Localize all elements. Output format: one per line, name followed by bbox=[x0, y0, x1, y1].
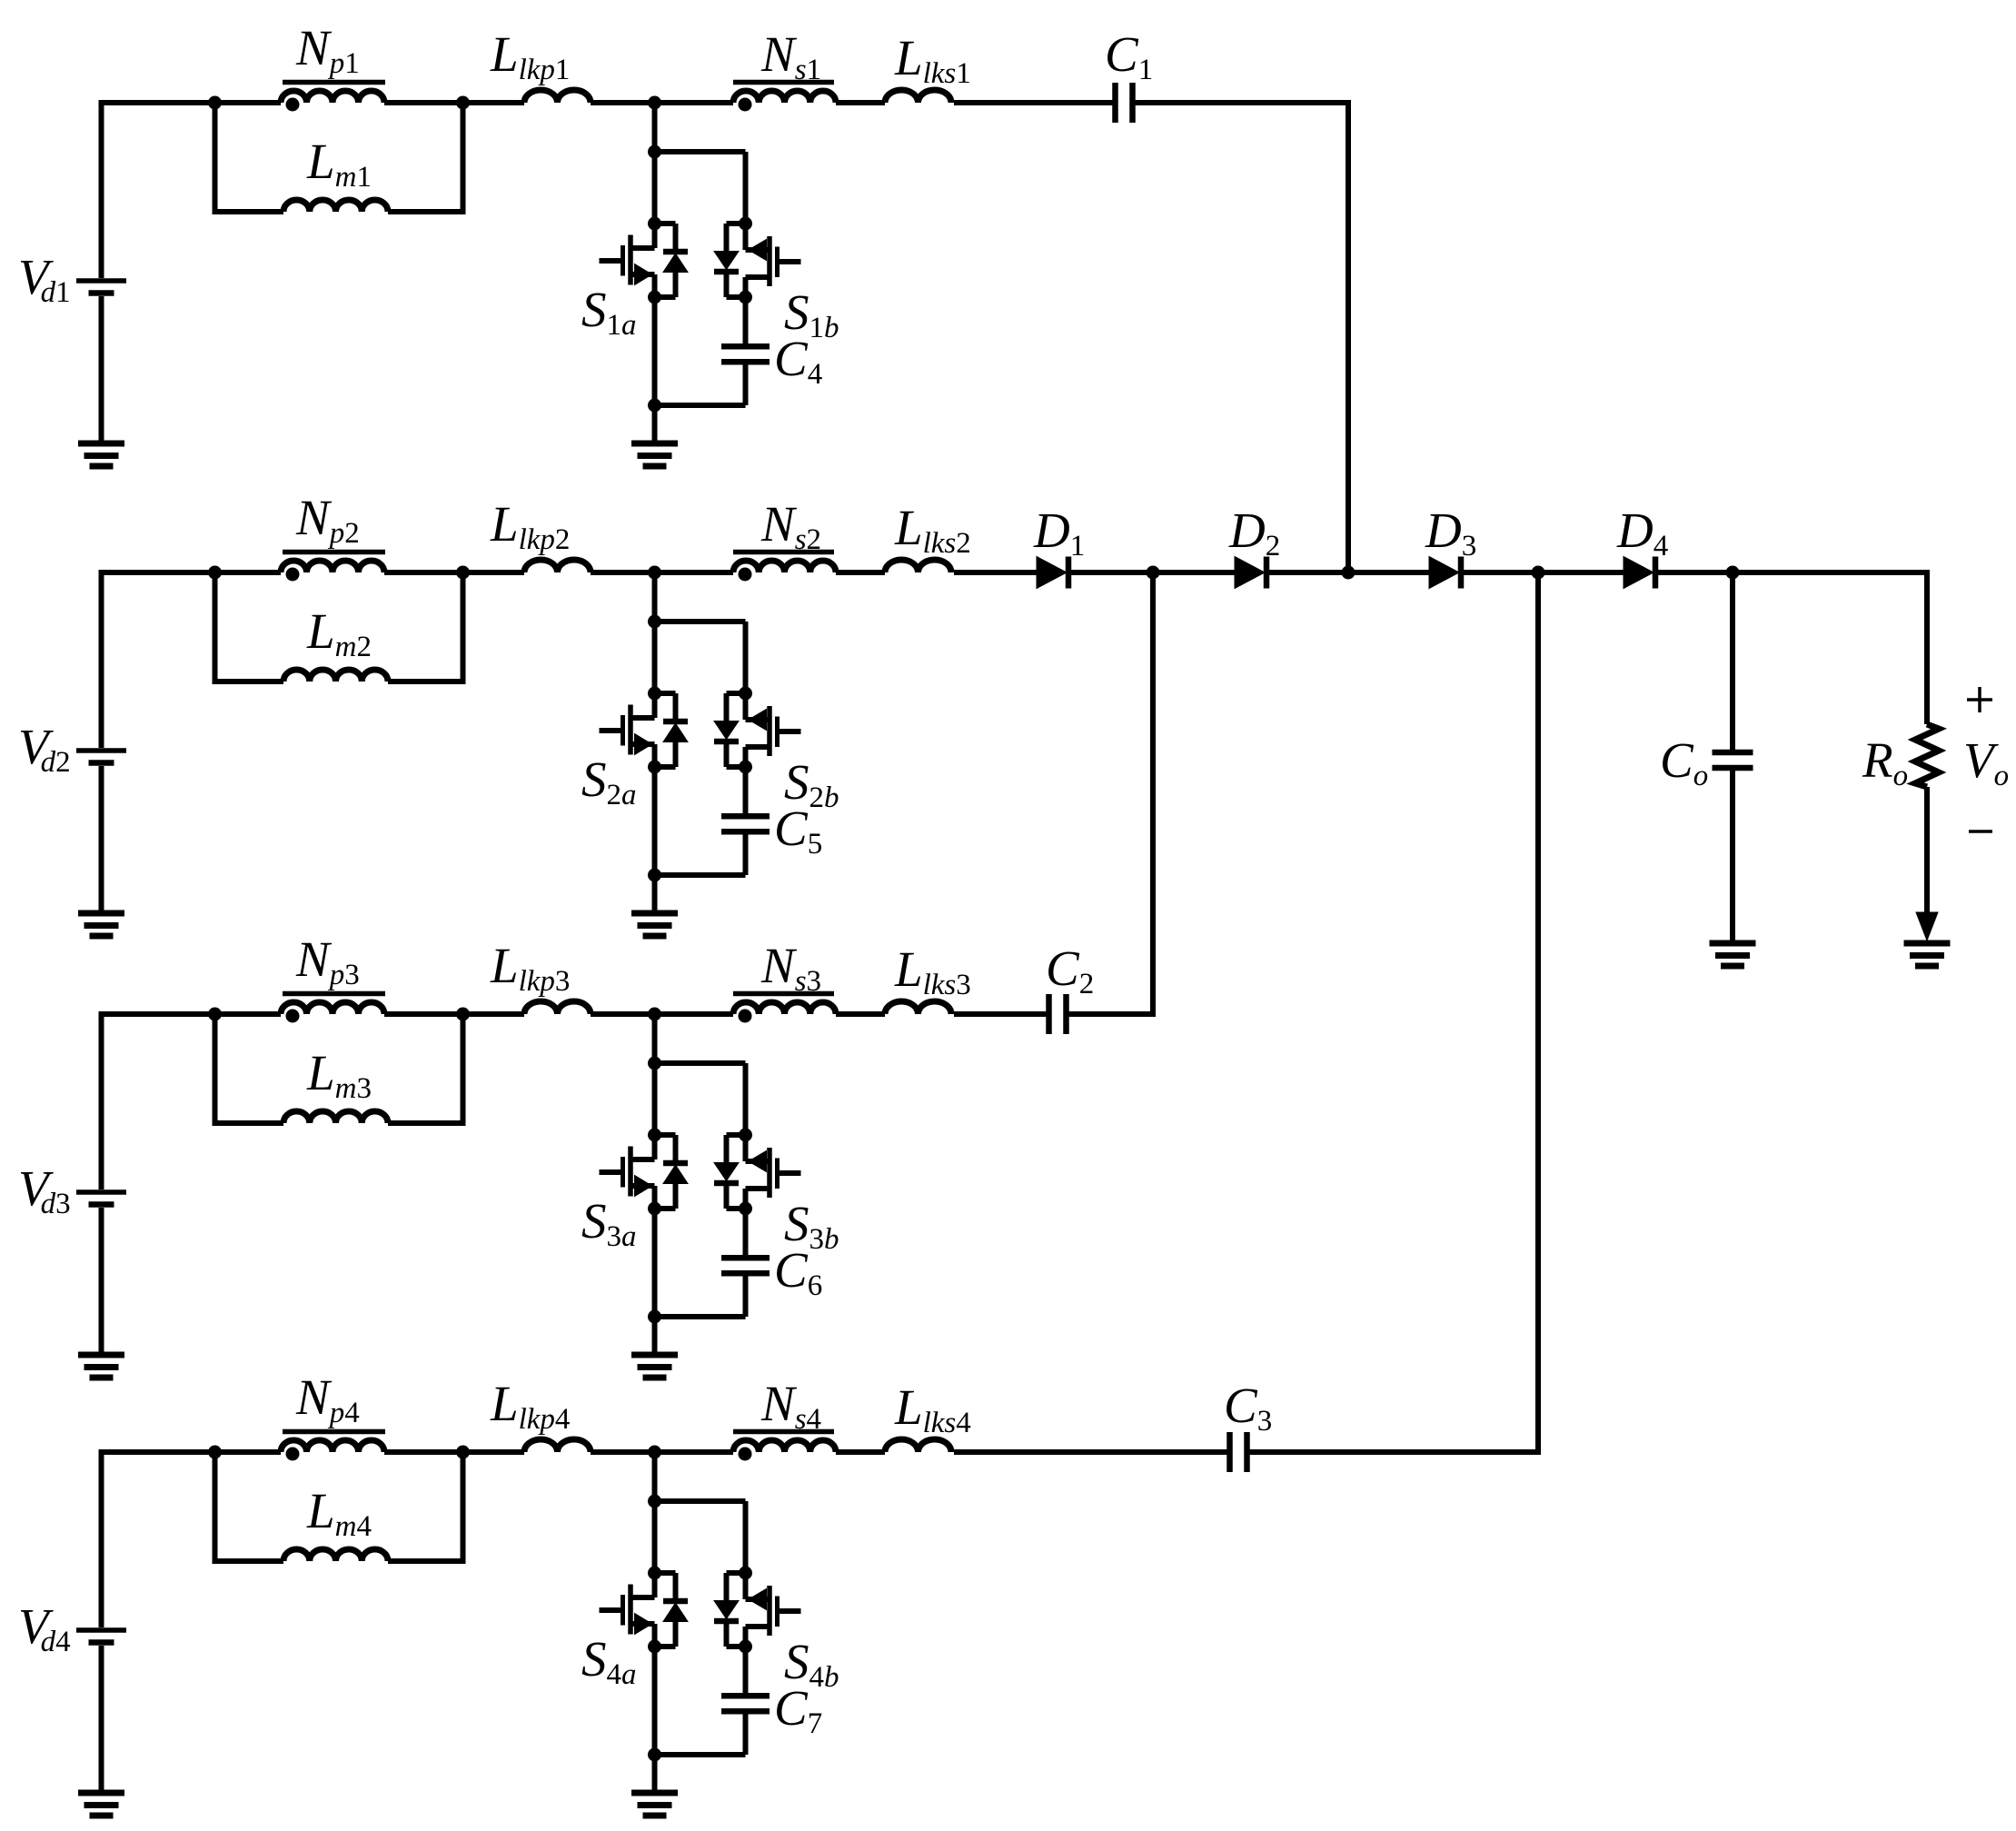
node: cell 2 primary-right junction bbox=[456, 566, 470, 580]
wire: cell 3 input bus bbox=[99, 1011, 886, 1017]
wire: cell 2 magnetizing loop bbox=[213, 572, 466, 684]
transformer secondary winding Ns1 bbox=[733, 83, 836, 112]
capacitor C4 bbox=[721, 297, 770, 405]
wire: cell 2 secondary to D1 bbox=[954, 570, 1037, 575]
voltage source Vd4 bbox=[76, 1449, 126, 1793]
ground (cell 3 switch leg) bbox=[631, 1352, 678, 1358]
transformer primary winding Np1 bbox=[281, 83, 385, 112]
capacitor C1 bbox=[1112, 83, 1118, 123]
wire: C2 to node A (riser) bbox=[1067, 572, 1154, 1014]
node: cell 2 switch node bbox=[648, 566, 661, 580]
node: cell 4 switch-leg bottom junction bbox=[648, 1748, 661, 1762]
voltage source Vd1 bbox=[76, 100, 126, 443]
diode D3 bbox=[1429, 557, 1459, 589]
transformer secondary winding Ns4 bbox=[733, 1432, 836, 1461]
node: cell 3 primary-left junction bbox=[208, 1008, 222, 1021]
inductor Llks3 (secondary leakage) bbox=[885, 1001, 951, 1014]
wire: cell 2 switch leg bbox=[655, 572, 746, 693]
output arrow (to ground) bbox=[1916, 912, 1938, 940]
inductor Lm3 (magnetizing) bbox=[283, 1111, 388, 1123]
transformer secondary winding Ns2 bbox=[733, 552, 836, 582]
wire: cell 3 secondary to C2 bbox=[954, 1011, 1049, 1017]
inductor Lm4 (magnetizing) bbox=[283, 1549, 388, 1561]
voltage source Vd2 bbox=[76, 570, 126, 913]
ground (output capacitor) bbox=[1710, 940, 1756, 947]
wire: cell 1 switch-leg bottom bbox=[655, 297, 746, 443]
minus sign (output polarity) bbox=[1969, 830, 1992, 833]
wire: cell 4 magnetizing loop bbox=[213, 1452, 466, 1564]
transistor S4a (MOSFET with body diode) bbox=[600, 1567, 689, 1654]
inductor Llkp2 (primary leakage) bbox=[524, 560, 591, 572]
ground (cell 4 switch leg) bbox=[631, 1790, 678, 1796]
voltage source Vd3 bbox=[76, 1011, 126, 1355]
transistor S3b (MOSFET with body diode) bbox=[714, 1129, 801, 1216]
wire: cell 1 magnetizing loop bbox=[213, 103, 466, 214]
inductor Llkp3 (primary leakage) bbox=[524, 1001, 591, 1014]
transformer primary winding Np4 bbox=[281, 1432, 385, 1461]
node: cell 2 primary-left junction bbox=[208, 566, 222, 580]
wire: cell 1 switch leg bbox=[655, 103, 746, 224]
capacitor C5 bbox=[721, 767, 770, 875]
ground (cell 2 source) bbox=[78, 911, 124, 917]
transistor S2a (MOSFET with body diode) bbox=[600, 687, 689, 774]
node: cell 3 primary-right junction bbox=[456, 1008, 470, 1021]
inductor Lm1 (magnetizing) bbox=[283, 200, 388, 212]
node: cell 1 switch-leg bottom junction bbox=[648, 399, 661, 413]
ground (load return) bbox=[1904, 940, 1951, 947]
wire: cell 3 switch leg bbox=[655, 1014, 746, 1135]
wire: cell 1 input bus bbox=[99, 100, 886, 105]
wire: cell 3 magnetizing loop bbox=[213, 1014, 466, 1126]
wire: cell 4 secondary to C3 bbox=[954, 1449, 1230, 1455]
transformer primary winding Np3 bbox=[281, 994, 385, 1023]
node: cell 1 primary-right junction bbox=[456, 96, 470, 110]
ground (cell 2 switch leg) bbox=[631, 911, 678, 917]
transformer primary winding Np2 bbox=[281, 552, 385, 582]
transistor S2b (MOSFET with body diode) bbox=[714, 687, 801, 774]
wire: D3 to node C bbox=[1461, 570, 1624, 575]
capacitor C6 bbox=[721, 1209, 770, 1317]
resistor Ro bbox=[1915, 724, 1939, 918]
capacitor C7 bbox=[721, 1647, 770, 1755]
capacitor C3 bbox=[1226, 1432, 1233, 1472]
node B (D2-D3 junction) bbox=[1342, 566, 1356, 580]
node: cell 1 switch-leg branch junction bbox=[648, 145, 661, 159]
ground (cell 4 source) bbox=[78, 1790, 124, 1796]
node: cell 1 switch node bbox=[648, 96, 661, 110]
inductor Llks1 (secondary leakage) bbox=[885, 90, 951, 103]
ground (cell 3 source) bbox=[78, 1352, 124, 1358]
node: output node bbox=[1726, 566, 1740, 580]
ground (cell 1 source) bbox=[78, 441, 124, 447]
node: cell 2 switch-leg bottom junction bbox=[648, 869, 661, 882]
node A (D1-D2 junction) bbox=[1147, 566, 1160, 580]
wire: D4 to output node bbox=[1655, 570, 1733, 575]
node: cell 4 switch node bbox=[648, 1446, 661, 1459]
node: cell 3 switch-leg branch junction bbox=[648, 1057, 661, 1070]
node: cell 4 switch-leg branch junction bbox=[648, 1495, 661, 1508]
wire: cell 4 switch leg bbox=[655, 1452, 746, 1573]
wire: C1 to node B (drop) bbox=[1133, 103, 1349, 572]
diode D2 bbox=[1235, 557, 1265, 589]
inductor Llks2 (secondary leakage) bbox=[885, 560, 951, 572]
wire: cell 1 secondary output to C1 bbox=[954, 100, 1116, 105]
diode D4 bbox=[1624, 557, 1654, 589]
wire: output top rail bbox=[1733, 572, 1927, 724]
transistor S4b (MOSFET with body diode) bbox=[714, 1567, 801, 1654]
wire: cell 2 switch-leg bottom bbox=[655, 767, 746, 913]
inductor Lm2 (magnetizing) bbox=[283, 670, 388, 682]
ground (cell 1 switch leg) bbox=[631, 441, 678, 447]
node: cell 3 switch-leg bottom junction bbox=[648, 1310, 661, 1324]
transformer secondary winding Ns3 bbox=[733, 994, 836, 1023]
node: cell 4 primary-left junction bbox=[208, 1446, 222, 1459]
wire: cell 4 switch-leg bottom bbox=[655, 1647, 746, 1793]
plus sign (output polarity) bbox=[1967, 687, 1992, 712]
capacitor Co bbox=[1713, 572, 1753, 943]
wire: cell 4 input bus bbox=[99, 1449, 886, 1455]
node: cell 4 primary-right junction bbox=[456, 1446, 470, 1459]
node: cell 1 primary-left junction bbox=[208, 96, 222, 110]
inductor Llkp4 (primary leakage) bbox=[524, 1439, 591, 1452]
node C (D3-D4 junction) bbox=[1532, 566, 1545, 580]
wire: D1 to node A bbox=[1068, 570, 1235, 575]
transistor S1a (MOSFET with body diode) bbox=[600, 217, 689, 304]
node: cell 2 switch-leg branch junction bbox=[648, 615, 661, 629]
wire: C3 to node C (riser) bbox=[1247, 572, 1539, 1452]
transistor S3a (MOSFET with body diode) bbox=[600, 1129, 689, 1216]
inductor Llks4 (secondary leakage) bbox=[885, 1439, 951, 1452]
wire: cell 2 input bus bbox=[99, 570, 886, 575]
inductor Llkp1 (primary leakage) bbox=[524, 90, 591, 103]
node: cell 3 switch node bbox=[648, 1008, 661, 1021]
wire: cell 3 switch-leg bottom bbox=[655, 1209, 746, 1355]
capacitor C2 bbox=[1046, 994, 1052, 1034]
diode D1 bbox=[1037, 557, 1067, 589]
wire: D2 to node B bbox=[1266, 570, 1429, 575]
transistor S1b (MOSFET with body diode) bbox=[714, 217, 801, 304]
